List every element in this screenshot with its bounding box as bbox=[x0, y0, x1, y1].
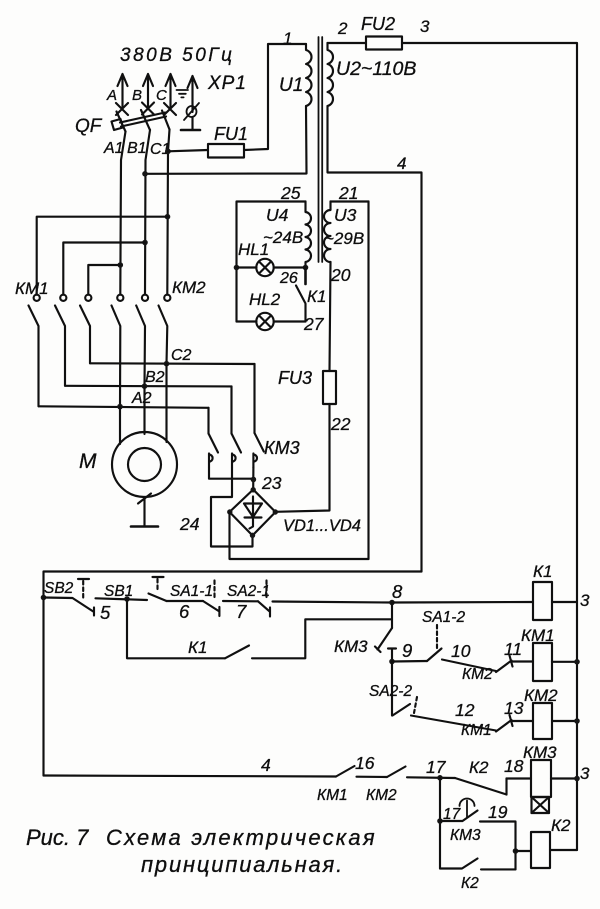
svg-text:4: 4 bbox=[397, 154, 406, 173]
svg-text:КМ2: КМ2 bbox=[366, 787, 397, 804]
coil KM1 bbox=[533, 643, 552, 681]
coil KM3 bbox=[531, 760, 551, 797]
junction bridge bottom corner bbox=[250, 533, 255, 538]
svg-text:8: 8 bbox=[392, 581, 403, 602]
circuit breaker QF bbox=[112, 110, 170, 132]
svg-text:SA2-1: SA2-1 bbox=[227, 583, 270, 600]
junction phase A branch bbox=[118, 262, 124, 268]
contact KM3 pole 2 bbox=[232, 434, 242, 468]
earth symbol at XP1 bbox=[177, 90, 189, 97]
wire HL1 left bbox=[237, 266, 257, 268]
svg-text:7: 7 bbox=[236, 601, 247, 622]
wire U1 bottom to phase B (junction) bbox=[145, 106, 307, 174]
svg-text:20: 20 bbox=[330, 265, 351, 285]
wire HL2 right to node 27 bbox=[274, 320, 306, 322]
contact KM1 pole 3 bbox=[80, 295, 91, 364]
svg-text:25: 25 bbox=[280, 183, 301, 203]
wire node 18 to KM3 coil bbox=[507, 777, 532, 779]
svg-text:Схема электрическая: Схема электрическая bbox=[106, 825, 377, 850]
lamp HL2 bbox=[256, 313, 273, 330]
junction node 23 bbox=[251, 477, 257, 483]
junction bridge left corner bbox=[227, 509, 232, 514]
svg-text:9: 9 bbox=[402, 640, 412, 661]
junction C2 bbox=[164, 361, 170, 367]
svg-text:FU3: FU3 bbox=[278, 368, 312, 388]
svg-text:ХР1: ХР1 bbox=[207, 73, 247, 94]
wire K2 coil to rail 3 bbox=[550, 849, 577, 851]
svg-text:10: 10 bbox=[451, 641, 471, 661]
winding U3 bbox=[324, 202, 330, 263]
junction rail at KM3 coil bbox=[574, 776, 580, 782]
svg-text:В1: В1 bbox=[127, 140, 147, 157]
wire node 17 bbox=[407, 776, 455, 779]
svg-text:21: 21 bbox=[338, 183, 358, 203]
svg-text:КМ1: КМ1 bbox=[317, 787, 348, 804]
svg-text:КМ3: КМ3 bbox=[523, 743, 557, 762]
wire B2 to motor bbox=[143, 386, 145, 434]
svg-text:6: 6 bbox=[179, 601, 190, 622]
wire HL1 right to node 26 bbox=[274, 266, 306, 268]
wire node 6 bbox=[167, 600, 204, 602]
switch SA1-1 bbox=[203, 581, 219, 617]
phase C input arrow bbox=[166, 74, 176, 107]
transformer primary U1 bbox=[306, 44, 312, 106]
svg-text:VD1...VD4: VD1...VD4 bbox=[283, 517, 361, 535]
wire A2 to motor bbox=[119, 407, 121, 444]
pin X phase B bbox=[142, 103, 154, 115]
contact KM2 pole 1 bbox=[112, 295, 124, 407]
svg-text:22: 22 bbox=[330, 414, 351, 434]
wire node 21 down right side of U3 bbox=[367, 202, 369, 560]
svg-text:К1: К1 bbox=[533, 562, 552, 581]
svg-text:С: С bbox=[156, 87, 167, 104]
wire C1 to FU1 bbox=[168, 150, 208, 151]
svg-text:С2: С2 bbox=[171, 347, 192, 364]
contact KM2 (NC interlock) bbox=[496, 656, 513, 673]
junction at K2 coil left bbox=[513, 848, 519, 854]
wire HL2 left bbox=[237, 320, 257, 322]
wire motor to ground bbox=[143, 497, 145, 526]
svg-text:13: 13 bbox=[504, 698, 524, 718]
wire phase C QF down bbox=[167, 130, 169, 295]
svg-text:17: 17 bbox=[426, 757, 447, 777]
rectifier bridge VD1...VD4 bbox=[230, 490, 276, 536]
contact KM1 (brake aux NO) bbox=[336, 766, 355, 777]
svg-text:3: 3 bbox=[420, 17, 430, 36]
svg-text:U2~110В: U2~110В bbox=[336, 58, 416, 80]
svg-text:КМ3: КМ3 bbox=[450, 827, 481, 844]
junction control rail left bbox=[41, 595, 47, 601]
pin X phase A bbox=[116, 103, 128, 115]
coil K2 bbox=[531, 832, 550, 868]
junction A2 bbox=[117, 404, 123, 410]
junction rail at KM2 coil bbox=[574, 718, 580, 724]
wire phase A QF to A2 bbox=[120, 132, 125, 295]
svg-text:К2: К2 bbox=[551, 816, 571, 835]
wire K1 to node 8 vertical bbox=[252, 619, 392, 658]
phase B input arrow bbox=[143, 74, 153, 107]
svg-text:SB1: SB1 bbox=[104, 583, 133, 600]
svg-text:11: 11 bbox=[504, 639, 522, 659]
svg-text:~29В: ~29В bbox=[324, 229, 364, 248]
wire node 9 to SA1-2 bbox=[392, 660, 427, 663]
junction phase C branch bbox=[165, 214, 171, 220]
pin X phase C bbox=[164, 103, 176, 115]
junction rail at KM1 coil bbox=[574, 659, 580, 665]
svg-text:FU2: FU2 bbox=[361, 14, 395, 34]
wire node 22 to bridge right corner bbox=[276, 404, 330, 512]
svg-text:К1: К1 bbox=[307, 287, 326, 306]
contact KM2 pole 2 bbox=[136, 295, 148, 387]
coil KM2 bbox=[533, 703, 552, 739]
wire bridge left corner to node 21 rail bbox=[230, 512, 369, 559]
svg-text:В: В bbox=[132, 87, 142, 104]
svg-text:24: 24 bbox=[179, 514, 200, 534]
wire branch A to KM1 pole 3 bbox=[88, 265, 120, 295]
svg-text:А2: А2 bbox=[131, 390, 152, 407]
contact KM3 (aux NO) bbox=[375, 628, 396, 662]
svg-text:SB2: SB2 bbox=[44, 580, 74, 597]
switch SA2-1 bbox=[258, 581, 270, 617]
motor M bbox=[112, 432, 177, 497]
wire C2 to KM3 pole 3 bbox=[253, 364, 255, 433]
svg-text:КМ2: КМ2 bbox=[172, 278, 206, 297]
wire KM3 pole1 to node 23 bbox=[209, 468, 253, 479]
contact KM3 pole 1 bbox=[209, 434, 219, 468]
contact KM2 pole 3 bbox=[159, 295, 171, 364]
svg-text:принципиальная.: принципиальная. bbox=[141, 852, 344, 877]
contact KM1 pole 2 bbox=[55, 295, 66, 386]
svg-text:18: 18 bbox=[504, 756, 524, 776]
wire node 12 bbox=[411, 716, 496, 731]
wire U2 bottom to node 4 bbox=[328, 106, 422, 572]
button 17 (brake release) bbox=[440, 799, 478, 821]
svg-text:FU1: FU1 bbox=[214, 124, 248, 144]
svg-text:Рис. 7: Рис. 7 bbox=[26, 825, 89, 850]
wire node 8 bbox=[273, 602, 393, 603]
svg-text:А: А bbox=[106, 87, 117, 104]
junction bridge top corner bbox=[251, 487, 256, 492]
wire KM3 pole3 to bridge top bbox=[252, 468, 254, 490]
svg-text:19: 19 bbox=[488, 802, 508, 822]
svg-text:SA1-2: SA1-2 bbox=[422, 609, 465, 626]
svg-text:SA2-2: SA2-2 bbox=[369, 683, 412, 700]
fuse FU1 bbox=[208, 144, 244, 158]
junction B2 bbox=[142, 383, 148, 389]
wire node 8 to K1 coil bbox=[392, 601, 533, 604]
contact KM3 pole 3 bbox=[253, 433, 263, 468]
transformer core bbox=[319, 37, 323, 262]
PE input arrow bbox=[188, 76, 198, 112]
svg-text:23: 23 bbox=[261, 473, 282, 493]
svg-text:К2: К2 bbox=[461, 875, 479, 892]
wire KM3 coil to rail 3 bbox=[551, 777, 577, 779]
junction C1 (to FU1) bbox=[165, 149, 171, 155]
motor frame slash bbox=[138, 494, 151, 504]
svg-text:4: 4 bbox=[261, 755, 271, 775]
svg-text:27: 27 bbox=[303, 314, 325, 334]
junction node 5 (K1 branch) bbox=[124, 596, 130, 602]
phase A input arrow bbox=[118, 74, 128, 108]
svg-text:HL2: HL2 bbox=[249, 290, 281, 309]
contact K1 (lamp switch) bbox=[296, 268, 306, 322]
wire KM3 pole2 to node 24 (bridge bottom) bbox=[211, 468, 253, 547]
winding U4 bbox=[306, 202, 312, 268]
svg-text:КМ1: КМ1 bbox=[461, 722, 492, 739]
wire branch B to KM1 pole 2 bbox=[63, 243, 145, 295]
fuse FU3 bbox=[323, 371, 336, 404]
wire node 20 to FU3 bbox=[330, 262, 331, 371]
contact KM2 (brake aux NO) bbox=[387, 767, 406, 778]
wire node 3 right rail bbox=[402, 43, 577, 850]
node B2 wire bbox=[65, 385, 232, 388]
switch SA2-2 bbox=[393, 697, 418, 716]
svg-text:26: 26 bbox=[279, 270, 298, 287]
winding U3 top wire bbox=[331, 200, 369, 202]
svg-text:КМ3: КМ3 bbox=[334, 637, 368, 656]
junction U1-bottom on phase B bbox=[142, 171, 148, 177]
wire U4 top / lamp box left bbox=[237, 202, 306, 322]
wire FU1 to U1 top (node 1) bbox=[244, 44, 306, 150]
wire U2 top to FU2 bbox=[328, 42, 367, 44]
ground bar PE bbox=[181, 129, 200, 132]
wire K1 coil to rail 3 bbox=[552, 601, 577, 603]
junction node 26 bbox=[303, 265, 309, 271]
transformer secondary U2 bbox=[328, 43, 334, 106]
wire branch C to KM1 pole 1 bbox=[37, 217, 168, 295]
contact K2 (NO) bbox=[455, 778, 507, 795]
wire KM1 coil to rail 3 bbox=[552, 661, 577, 663]
wire node 11 to KM1 coil bbox=[511, 660, 533, 662]
junction node 9 bbox=[389, 659, 395, 665]
brake rectifier square bbox=[532, 797, 550, 813]
junction phase B branch bbox=[142, 240, 148, 246]
wire node 13 to KM2 coil bbox=[511, 720, 533, 722]
junction HL1 left bbox=[234, 265, 240, 271]
wire B2 to KM3 pole 2 bbox=[230, 386, 232, 433]
wire node 7 bbox=[223, 600, 258, 602]
contact K1 blade bbox=[225, 646, 249, 659]
svg-text:1: 1 bbox=[283, 29, 292, 48]
svg-text:U1: U1 bbox=[279, 75, 303, 96]
svg-text:HL1: HL1 bbox=[238, 240, 269, 259]
wire node 17 down bbox=[439, 778, 441, 869]
contact KM1 (NC interlock) bbox=[496, 715, 513, 732]
wire C2 to motor bbox=[165, 364, 167, 442]
svg-text:К1: К1 bbox=[188, 638, 207, 657]
svg-text:КМ1: КМ1 bbox=[521, 626, 555, 645]
contact KM3 (self-hold for K2) bbox=[440, 859, 516, 870]
svg-text:КМ2: КМ2 bbox=[524, 686, 558, 705]
wire node 19 to K2 coil bbox=[480, 822, 516, 870]
svg-text:QF: QF bbox=[75, 116, 103, 137]
coil K1 bbox=[533, 582, 552, 620]
svg-text:А1: А1 bbox=[103, 140, 124, 157]
node C2 wire bbox=[90, 362, 255, 365]
svg-text:К2: К2 bbox=[469, 758, 489, 777]
wire node 4 horizontal to control circuit bbox=[44, 572, 422, 776]
pin slashed-circle PE bbox=[184, 103, 199, 120]
junction node 17 bbox=[437, 775, 443, 781]
svg-text:КМ2: КМ2 bbox=[462, 666, 493, 683]
junction bridge right corner bbox=[273, 509, 278, 514]
svg-text:U4: U4 bbox=[266, 205, 289, 225]
wire node 4 bottom rail bbox=[44, 776, 337, 777]
node A2 wire bbox=[39, 406, 209, 408]
svg-text:КМ3: КМ3 bbox=[264, 438, 300, 458]
junction node 8 bbox=[389, 600, 395, 606]
svg-text:В2: В2 bbox=[145, 369, 165, 386]
svg-text:М: М bbox=[79, 450, 97, 473]
wire phase B QF to B2 bbox=[145, 130, 150, 295]
svg-text:2: 2 bbox=[337, 19, 348, 38]
button SB2 (NC) bbox=[44, 579, 95, 616]
svg-text:КМ1: КМ1 bbox=[15, 279, 49, 298]
fuse FU2 bbox=[366, 37, 402, 50]
svg-text:12: 12 bbox=[455, 700, 475, 720]
button SB1 (NC) bbox=[149, 577, 167, 601]
wire node 10 bbox=[442, 660, 496, 672]
ground (motor) bbox=[131, 525, 158, 528]
svg-text:5: 5 bbox=[100, 602, 111, 623]
wire PE pin to earth bar bbox=[191, 117, 193, 129]
wire node 5 bbox=[96, 598, 148, 600]
wire KM2 coil to rail 3 bbox=[552, 720, 577, 722]
contact K1 (holding) branch wire bbox=[127, 599, 225, 658]
svg-text:380В 50Гц: 380В 50Гц bbox=[120, 45, 235, 66]
wire node 8 down bbox=[391, 603, 393, 629]
svg-text:3: 3 bbox=[580, 764, 590, 783]
contact KM1 pole 1 bbox=[29, 295, 40, 407]
wire A2 to KM3 pole 1 bbox=[207, 408, 209, 434]
junction node 17 lower bbox=[437, 818, 443, 824]
lamp HL1 bbox=[256, 259, 273, 276]
svg-text:16: 16 bbox=[355, 753, 375, 773]
wire node 16 bbox=[357, 776, 388, 778]
wire node 9 down to SA2-2 bbox=[391, 662, 393, 716]
wire junction to K2 coil bbox=[516, 850, 532, 852]
switch SA1-2 bbox=[427, 625, 442, 661]
svg-text:SA1-1: SA1-1 bbox=[170, 583, 213, 600]
svg-text:3: 3 bbox=[580, 591, 590, 610]
svg-text:U3: U3 bbox=[334, 205, 357, 225]
